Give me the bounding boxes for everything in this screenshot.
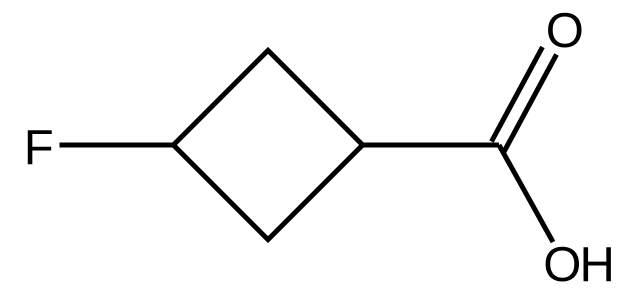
svg-text:H: H (580, 238, 615, 292)
svg-text:F: F (24, 121, 54, 175)
svg-text:O: O (543, 238, 581, 292)
svg-text:O: O (546, 4, 584, 58)
